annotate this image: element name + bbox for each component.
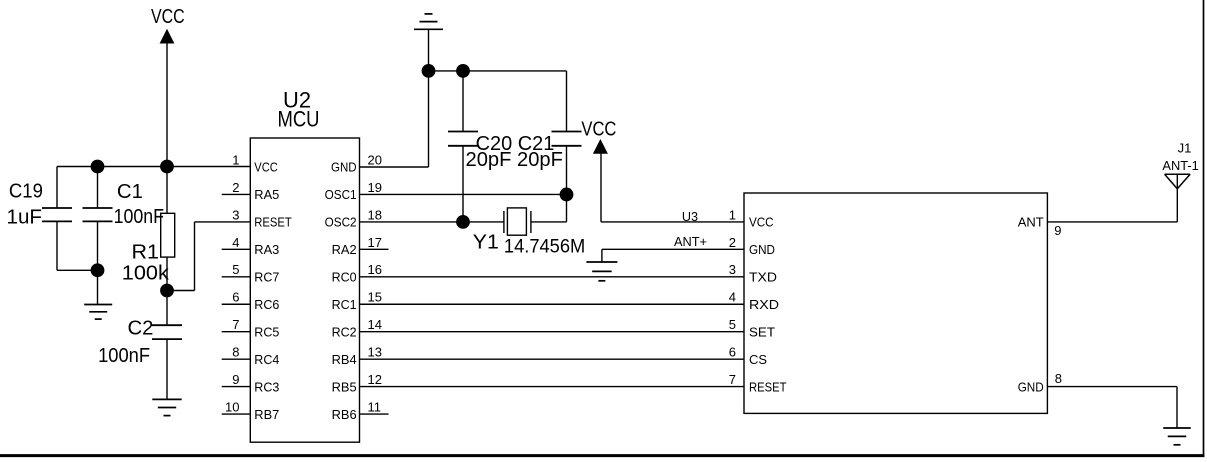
svg-text:6: 6 bbox=[729, 345, 736, 360]
svg-text:7: 7 bbox=[729, 372, 736, 387]
svg-text:1: 1 bbox=[232, 152, 239, 167]
svg-text:3: 3 bbox=[729, 262, 736, 277]
svg-text:VCC: VCC bbox=[749, 215, 774, 230]
svg-text:1uF: 1uF bbox=[7, 206, 43, 228]
svg-text:GND: GND bbox=[331, 160, 357, 175]
svg-text:RC5: RC5 bbox=[254, 324, 279, 339]
svg-text:12: 12 bbox=[368, 372, 382, 387]
svg-text:RC7: RC7 bbox=[254, 270, 279, 285]
svg-text:ANT-1: ANT-1 bbox=[1162, 158, 1198, 173]
svg-text:100k: 100k bbox=[122, 263, 170, 285]
svg-text:GND: GND bbox=[749, 242, 775, 257]
svg-text:U3: U3 bbox=[682, 209, 698, 224]
svg-text:RC2: RC2 bbox=[332, 324, 357, 339]
svg-text:RB7: RB7 bbox=[254, 407, 279, 422]
svg-text:R1: R1 bbox=[132, 242, 160, 264]
svg-text:15: 15 bbox=[368, 290, 382, 305]
svg-text:VCC: VCC bbox=[581, 119, 616, 141]
svg-text:RB5: RB5 bbox=[332, 379, 357, 394]
svg-text:100nF: 100nF bbox=[98, 345, 150, 367]
svg-text:RESET: RESET bbox=[749, 379, 787, 394]
svg-text:RA3: RA3 bbox=[254, 242, 279, 257]
svg-text:OSC1: OSC1 bbox=[325, 187, 357, 202]
svg-text:SET: SET bbox=[749, 324, 775, 339]
svg-text:3: 3 bbox=[232, 207, 239, 222]
svg-text:19: 19 bbox=[368, 180, 382, 195]
svg-text:20: 20 bbox=[368, 152, 382, 167]
svg-text:OSC2: OSC2 bbox=[325, 215, 357, 230]
svg-text:2: 2 bbox=[232, 180, 239, 195]
svg-text:RC0: RC0 bbox=[332, 270, 357, 285]
svg-text:9: 9 bbox=[232, 372, 239, 387]
svg-text:13: 13 bbox=[368, 345, 382, 360]
svg-text:VCC: VCC bbox=[254, 160, 277, 175]
svg-text:RC4: RC4 bbox=[254, 352, 279, 367]
svg-text:5: 5 bbox=[729, 317, 736, 332]
svg-text:ANT: ANT bbox=[1018, 215, 1044, 230]
svg-text:11: 11 bbox=[368, 399, 382, 414]
svg-text:10: 10 bbox=[225, 399, 239, 414]
svg-text:GND: GND bbox=[1018, 379, 1044, 394]
svg-text:Y1: Y1 bbox=[473, 231, 499, 253]
svg-text:1: 1 bbox=[729, 207, 736, 222]
svg-text:4: 4 bbox=[729, 290, 736, 305]
svg-text:RC1: RC1 bbox=[332, 297, 357, 312]
svg-text:C2: C2 bbox=[128, 317, 154, 339]
svg-text:C19: C19 bbox=[9, 181, 43, 203]
svg-text:RC3: RC3 bbox=[254, 379, 279, 394]
svg-text:C1: C1 bbox=[117, 181, 143, 203]
svg-text:VCC: VCC bbox=[151, 6, 185, 28]
svg-text:4: 4 bbox=[232, 235, 239, 250]
svg-text:7: 7 bbox=[232, 317, 239, 332]
svg-text:14.7456M: 14.7456M bbox=[504, 236, 585, 257]
svg-text:8: 8 bbox=[1055, 371, 1062, 386]
svg-text:MCU: MCU bbox=[278, 107, 320, 132]
svg-text:RB4: RB4 bbox=[332, 352, 357, 367]
svg-text:RXD: RXD bbox=[749, 297, 779, 312]
svg-text:J1: J1 bbox=[1178, 141, 1192, 156]
svg-text:100nF: 100nF bbox=[114, 206, 164, 228]
svg-text:14: 14 bbox=[368, 317, 382, 332]
svg-text:RA2: RA2 bbox=[332, 242, 357, 257]
svg-text:18: 18 bbox=[368, 207, 382, 222]
svg-text:RB6: RB6 bbox=[332, 407, 357, 422]
svg-text:6: 6 bbox=[232, 290, 239, 305]
svg-text:16: 16 bbox=[368, 262, 382, 277]
svg-text:2: 2 bbox=[729, 235, 736, 250]
svg-text:ANT+: ANT+ bbox=[674, 234, 707, 249]
svg-text:RESET: RESET bbox=[254, 215, 292, 230]
svg-text:17: 17 bbox=[368, 235, 382, 250]
svg-text:5: 5 bbox=[232, 262, 239, 277]
svg-text:RA5: RA5 bbox=[254, 187, 279, 202]
svg-text:8: 8 bbox=[232, 345, 239, 360]
svg-text:CS: CS bbox=[749, 352, 767, 367]
svg-text:20pF 20pF: 20pF 20pF bbox=[466, 149, 563, 171]
svg-text:9: 9 bbox=[1054, 223, 1061, 238]
svg-text:TXD: TXD bbox=[749, 270, 777, 285]
svg-text:RC6: RC6 bbox=[254, 297, 279, 312]
